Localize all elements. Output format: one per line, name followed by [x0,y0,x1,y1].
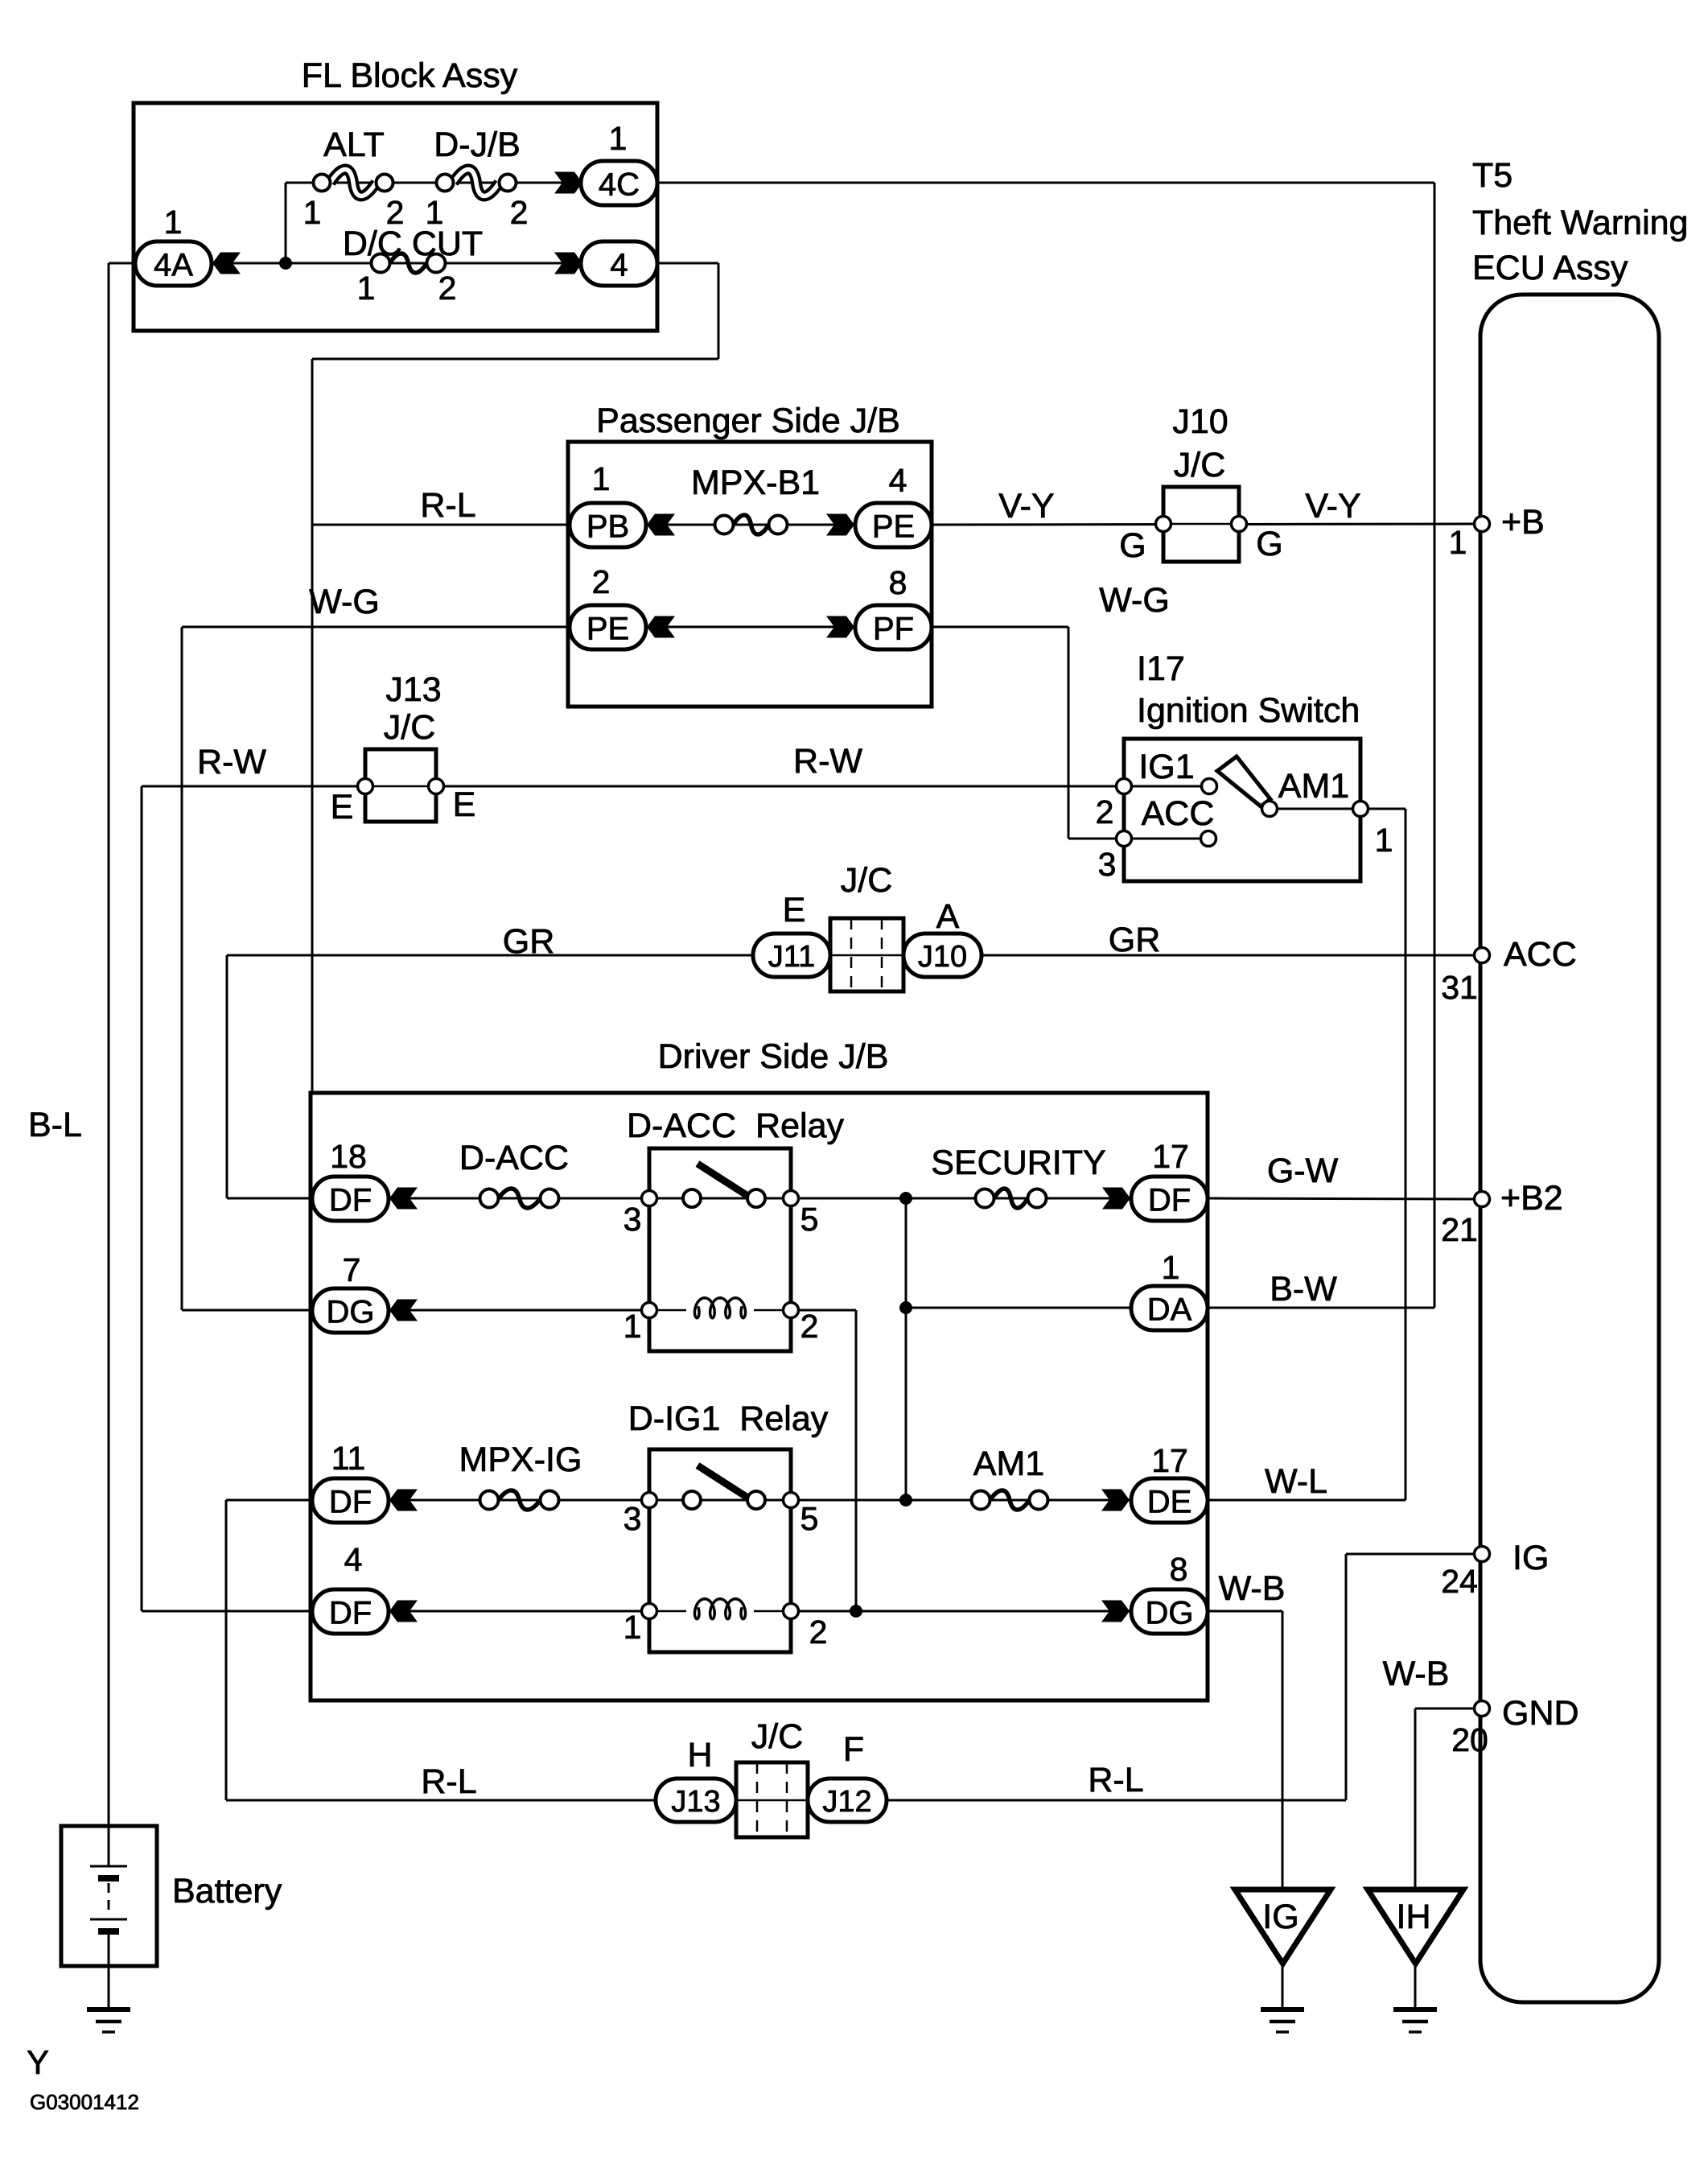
svg-text:R-L: R-L [420,486,475,525]
svg-text:MPX-B1: MPX-B1 [691,464,820,502]
connector PB pin 1 [570,503,646,547]
arrow into PB [647,514,675,536]
svg-text:PF: PF [873,612,914,647]
svg-text:D-ACC: D-ACC [459,1139,569,1177]
svg-text:8: 8 [889,564,908,601]
ground symbol battery [87,2009,130,2032]
svg-text:J11: J11 [768,940,815,974]
battery plate long 1 [90,1865,127,1868]
wire row2 inside Passenger J/B [646,626,855,629]
wire riser from ALT fuse to D/C CUT junction [285,183,287,263]
svg-text:DF: DF [1148,1183,1191,1218]
relay D-IG1 contact [642,1465,799,1509]
ECU pin ACC [1475,948,1490,963]
fuse MPX-IG [480,1490,559,1510]
terminal 3 ACC on box edge [1117,831,1132,847]
relay D-IG1 coil pin 1 [642,1604,657,1619]
svg-text:1: 1 [609,120,628,157]
svg-text:Passenger Side J/B: Passenger Side J/B [596,402,900,440]
junction dot W-B row [850,1605,862,1618]
connector J10 [903,934,982,977]
svg-text:J13: J13 [385,670,441,709]
wire R-L from J12 to ECU IG [887,1799,1346,1802]
svg-text:PE: PE [586,612,629,647]
arrow into PE pin4 [826,514,854,536]
connector DF pin 4 [312,1589,389,1634]
svg-text:Y: Y [27,2043,49,2081]
wire W-B row from DF 4 to relay coil [389,1610,649,1613]
Theft Warning ECU Assy body [1480,295,1659,2002]
wire B-W from riser junction to DA [906,1307,1131,1309]
svg-text:4: 4 [889,462,908,499]
svg-text:J13: J13 [671,1785,720,1819]
junction connector J13 J/C box [365,749,436,822]
svg-text:1: 1 [1162,1249,1180,1286]
arrow into DF 11 [389,1490,418,1511]
svg-text:J12: J12 [822,1785,871,1819]
svg-text:W-B: W-B [1219,1569,1286,1608]
arrow into 4 [554,253,582,274]
FL Block Assy box [134,103,657,331]
svg-text:H: H [687,1736,712,1774]
wire IH triangle to ground [1414,1964,1417,2009]
ECU pin +B [1475,517,1490,532]
svg-text:1: 1 [303,194,322,231]
svg-text:ACC: ACC [1142,794,1215,833]
svg-text:17: 17 [1151,1442,1188,1479]
junction connector bottom J/C box [736,1762,808,1837]
wire R-W from riser through J13 J/C to ignition switch IG1 [142,785,1117,788]
svg-text:18: 18 [330,1138,367,1175]
svg-text:2: 2 [592,563,611,600]
svg-text:PB: PB [586,509,629,545]
battery plate short 2 [98,1928,119,1935]
ECU pin IG [1475,1547,1490,1562]
wire from D-ACC coil pin 2 to riser [791,1309,856,1312]
svg-text:J/C: J/C [1174,446,1226,484]
arrow into 4A [212,253,241,274]
fuse MPX-B1 [715,515,788,534]
wire B-W riser from 4C wire down to B-W row [1434,183,1436,1308]
relay D-IG1 coil [657,1610,687,1613]
connector DG pin 7 [312,1288,389,1333]
svg-text:AM1: AM1 [973,1445,1044,1483]
svg-text:24: 24 [1441,1563,1478,1600]
wire W-B row from coil pin 2 to DG 8 [791,1610,1131,1613]
svg-text:17: 17 [1152,1138,1189,1175]
junction dot B-W row [899,1301,912,1314]
wire R-L to connector PB [312,524,570,526]
wire B-W from DA to riser [1208,1307,1434,1309]
svg-text:+B2: +B2 [1500,1179,1563,1218]
Passenger Side J/B box [568,442,932,707]
wire W-G left riser down to DG row [181,627,183,1310]
contact circle AM1 pivot [1262,802,1278,817]
svg-text:ACC: ACC [1504,935,1577,974]
svg-text:J10: J10 [1172,402,1228,441]
wire GR from riser through J11/J10 J/C to ECU ACC [227,954,1475,957]
relay D-ACC box [649,1148,791,1351]
relay D-ACC coil pin 1 [642,1303,657,1318]
wire GR riser down to DF pin 18 row [226,955,228,1198]
junction connector J10 J/C box [1163,487,1239,562]
ignition switch lever [1217,756,1270,806]
wire from connector 4 to R-L drop [657,262,718,265]
wire riser +B2 net between rows [905,1198,908,1500]
svg-text:E: E [453,785,476,824]
wire AM1 terminal stub [1270,808,1360,810]
arrow into DF 4 [389,1601,418,1622]
svg-text:4A: 4A [154,248,193,283]
Driver Side J/B box [311,1093,1208,1700]
svg-text:31: 31 [1441,969,1478,1006]
svg-text:5: 5 [800,1201,819,1238]
ECU pin GND [1475,1701,1490,1717]
svg-text:1: 1 [1375,822,1393,859]
wire W-B from ECU GND to IH triangle [1415,1708,1475,1710]
terminal 1 AM1 on box edge [1353,802,1368,817]
connector 4 [581,241,657,286]
connector DG pin 8 [1131,1589,1208,1634]
svg-text:R-L: R-L [421,1762,476,1801]
junction dot SECURITY row [899,1192,912,1205]
svg-text:1: 1 [592,460,611,497]
connector 4C [581,161,657,205]
svg-text:DE: DE [1147,1485,1192,1520]
wire V-Y from PE to J10 J/C to ECU +B [932,524,1475,525]
arrow into PE pin2 [647,616,675,638]
svg-text:R-W: R-W [197,743,266,781]
fusible link ALT [314,170,393,196]
wire R-L riser from MPX-IG row to bottom J/C [226,1499,312,1502]
wire AM1 fuse row from relay pin 5 to DE [791,1499,1131,1502]
ground symbol IH [1393,2009,1437,2032]
svg-text:R-W: R-W [793,742,862,781]
battery plate long 2 [90,1919,127,1921]
svg-text:1: 1 [164,204,183,241]
svg-text:J/C: J/C [384,708,436,747]
svg-text:DF: DF [329,1183,372,1218]
battery plate short 1 [98,1875,119,1882]
svg-text:G: G [1256,525,1282,563]
wire W-G from PF to ignition switch ACC [932,626,1068,629]
relay D-ACC coil pin 2 [784,1303,799,1318]
relay D-ACC contact [642,1164,799,1207]
fusible link D-J/B [437,170,517,196]
svg-text:GR: GR [503,922,555,961]
connector DE pin 17 [1131,1478,1208,1523]
battery internal wire top [108,1826,110,1866]
ground connector triangle IG [1235,1890,1331,1964]
connector DA pin 1 [1131,1286,1208,1330]
svg-text:+B: +B [1501,503,1545,542]
fuse SECURITY [976,1189,1047,1208]
svg-text:3: 3 [1098,846,1117,883]
svg-text:G-W: G-W [1267,1152,1339,1190]
svg-text:DG: DG [327,1295,375,1330]
wire IG1 terminal stub [1124,785,1209,788]
svg-text:2: 2 [809,1614,828,1651]
ignition switch I17 box [1124,739,1360,881]
svg-text:W-B: W-B [1383,1655,1450,1693]
wire IG triangle to ground [1282,1964,1284,2009]
svg-text:3: 3 [624,1500,642,1537]
junction dot AM1 row [899,1494,912,1506]
relay D-IG1 coil pin 2 [784,1604,799,1619]
connector PE pin 4 [855,503,932,547]
svg-text:PE: PE [872,509,915,545]
svg-text:7: 7 [343,1251,361,1288]
svg-text:4C: 4C [599,167,640,203]
svg-text:4: 4 [610,248,628,283]
wire battery to ground [108,1931,110,2009]
wire DG 7 row to relay coil pin 1 [389,1309,649,1312]
svg-text:1: 1 [624,1609,642,1646]
connector J11 [753,934,830,977]
fuse AM1 [972,1490,1048,1510]
wire W-B from DG 8 down to IG triangle [1208,1610,1282,1613]
connector PE pin 2 [570,605,646,649]
contact circle ACC inner [1201,831,1216,847]
terminal G left of J10 J/C [1156,517,1171,532]
svg-text:W-L: W-L [1265,1462,1327,1501]
svg-text:Ignition Switch: Ignition Switch [1137,691,1360,730]
svg-text:4: 4 [344,1541,363,1578]
svg-text:W-G: W-G [1099,581,1170,620]
contact circle IG1 inner [1202,779,1217,794]
connector PF pin 8 [855,605,932,649]
wire D/C CUT row inside FL block [212,262,582,265]
ground connector triangle IH [1368,1890,1463,1964]
wire from fuse row to connector 4C inside FL block [286,182,582,184]
svg-text:2: 2 [438,270,457,307]
wire from connector 4C to B-W riser [657,182,1434,184]
svg-text:MPX-IG: MPX-IG [459,1441,582,1479]
arrow into DF 18 [389,1188,418,1210]
svg-text:11: 11 [331,1440,366,1477]
wire W-G from PE pin2 to left riser [182,626,570,629]
svg-text:2: 2 [800,1308,819,1345]
connector J13 bottom [656,1779,736,1822]
wire R-L vertical drop to PB row and J/B corner [311,359,314,1093]
svg-text:J/C: J/C [841,861,893,900]
junction dot D/C CUT [279,257,292,270]
terminal E right of J13 J/C [429,779,444,794]
ground symbol IG [1261,2009,1304,2032]
wire R-L bottom row to J13 [226,1799,656,1802]
wire AM1 from ignition switch down to W-L row [1368,808,1405,810]
relay D-ACC coil [657,1309,687,1312]
svg-text:G: G [1119,526,1146,565]
svg-text:3: 3 [624,1201,642,1238]
svg-text:E: E [331,788,354,826]
svg-text:Driver Side J/B: Driver Side J/B [658,1037,889,1076]
svg-text:W-G: W-G [309,583,380,621]
svg-text:F: F [843,1730,864,1769]
arrow into DF 17 [1102,1188,1130,1210]
terminal 2 IG1 on box edge [1117,779,1132,794]
svg-text:IH: IH [1397,1898,1431,1936]
svg-text:20: 20 [1451,1721,1488,1758]
svg-text:1: 1 [357,270,376,307]
svg-text:DF: DF [329,1596,372,1631]
battery box [61,1826,157,1966]
svg-text:E: E [783,891,806,929]
svg-text:8: 8 [1170,1551,1188,1588]
svg-text:B-W: B-W [1270,1270,1337,1309]
connector 4A [135,241,212,286]
svg-text:D-J/B: D-J/B [434,126,521,164]
svg-text:D/C CUT: D/C CUT [343,225,483,263]
svg-text:B-L: B-L [28,1106,82,1144]
fuse D-ACC [480,1189,559,1208]
svg-text:1: 1 [1449,524,1467,561]
terminal G right of J10 J/C [1232,517,1247,532]
wire MPX-IG row from DF 11 to relay [389,1499,649,1502]
wire SECURITY row from relay pin 5 to DF 17 [791,1197,1131,1200]
svg-text:IG: IG [1262,1898,1298,1936]
terminal E left of J13 J/C [358,779,373,794]
svg-text:IG1: IG1 [1138,748,1194,786]
svg-text:SECURITY: SECURITY [931,1144,1105,1182]
svg-text:GND: GND [1502,1694,1579,1733]
arrow into PF [826,616,854,638]
wire D-ACC row from DF 18 to relay [389,1197,649,1200]
connector DF pin 11 [312,1478,389,1523]
svg-text:G03001412: G03001412 [30,2090,139,2114]
battery dashed link [108,1883,110,1917]
connector DF pin 17 [1131,1177,1208,1221]
wire G-W from DF 17 to ECU +B2 [1208,1198,1475,1199]
wire ACC terminal stub [1124,838,1208,840]
svg-text:DA: DA [1147,1292,1192,1328]
wire B-L from connector 4A to battery [109,262,135,265]
svg-text:21: 21 [1441,1211,1478,1248]
svg-text:IG: IG [1513,1539,1549,1577]
svg-text:2: 2 [510,194,529,231]
svg-text:DG: DG [1146,1596,1194,1631]
ECU pin +B2 [1475,1192,1490,1207]
svg-text:D-IG1 Relay: D-IG1 Relay [628,1399,829,1438]
svg-text:2: 2 [1096,793,1114,831]
svg-text:Battery: Battery [172,1872,282,1910]
fuse D/C CUT [372,253,446,273]
svg-text:J/C: J/C [751,1717,804,1756]
svg-text:5: 5 [800,1500,819,1537]
svg-text:ALT: ALT [323,126,385,164]
connector DF pin 18 [312,1177,389,1221]
svg-text:J10: J10 [918,940,967,974]
svg-text:GR: GR [1109,921,1161,959]
svg-text:V-Y: V-Y [998,487,1054,526]
svg-text:Theft Warning: Theft Warning [1472,204,1688,242]
svg-text:A: A [936,897,960,936]
wire R-W riser down to DF pin 4 [141,786,143,1611]
arrow into DE 17 [1101,1490,1130,1511]
arrow into DG 7 [389,1300,418,1321]
svg-text:DF: DF [329,1485,372,1520]
connector J12 [808,1779,887,1822]
svg-text:D-ACC Relay: D-ACC Relay [627,1107,844,1145]
svg-text:1: 1 [624,1308,642,1345]
junction connector middle J/C box [830,918,903,991]
svg-text:ECU Assy: ECU Assy [1472,249,1628,287]
wire riser from D-ACC coil to W-B row [855,1310,858,1611]
wire W-L from DE to AM1 riser [1208,1499,1405,1502]
wire MPX-B1 row inside Passenger J/B [646,524,855,526]
svg-text:AM1: AM1 [1278,767,1349,806]
arrow into 4C [554,172,582,194]
svg-text:I17: I17 [1137,649,1185,688]
svg-text:T5: T5 [1472,156,1513,195]
arrow into DG 8 [1101,1601,1130,1622]
svg-text:V-Y: V-Y [1305,487,1360,526]
relay D-IG1 box [649,1449,791,1652]
svg-text:FL Block Assy: FL Block Assy [302,56,518,95]
svg-text:R-L: R-L [1088,1761,1143,1799]
